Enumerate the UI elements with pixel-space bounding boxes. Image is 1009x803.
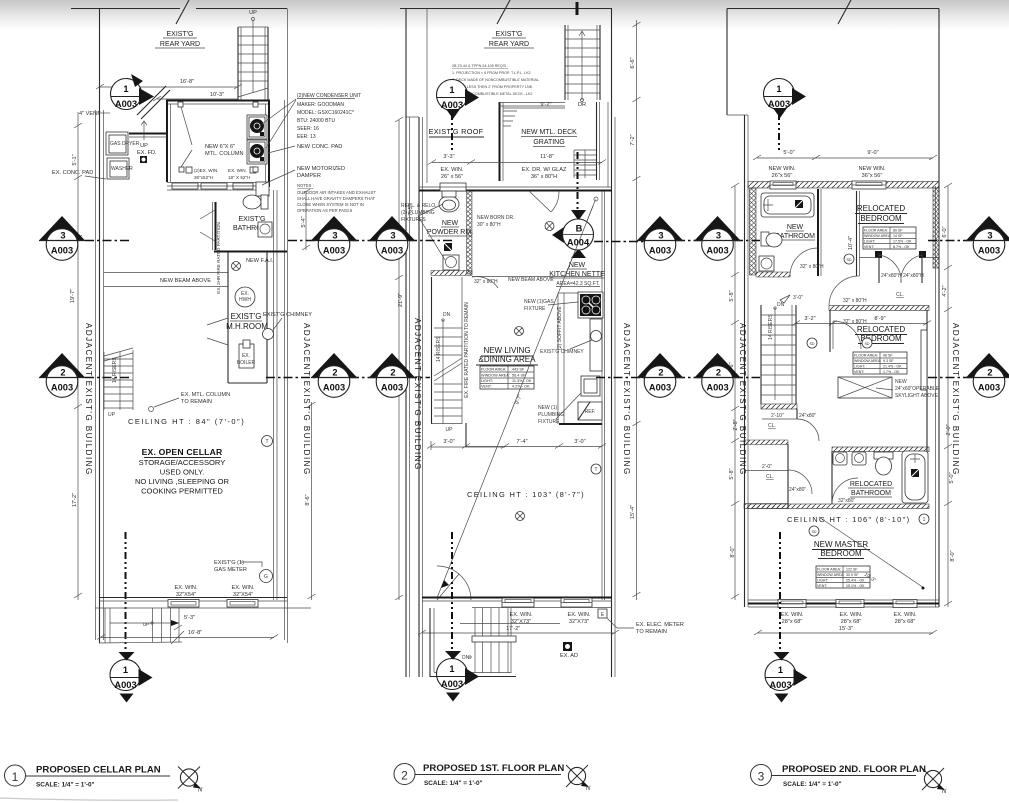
marker 3/A003 far right	[966, 216, 1009, 260]
rear lot line (right)	[727, 8, 939, 10]
area table (mid)	[480, 366, 534, 389]
east dim line	[636, 20, 638, 600]
svg-text:3: 3	[716, 231, 721, 241]
svg-text:BEDROOM: BEDROOM	[820, 549, 862, 558]
marker B/A004	[552, 210, 594, 258]
dim row 3'-3" 11'-8"	[432, 162, 602, 164]
svg-text:21.4% - OK: 21.4% - OK	[883, 365, 902, 369]
svg-text:NEW: NEW	[442, 220, 459, 227]
section row 2 dashdot segments	[85, 377, 973, 379]
svg-text:28"x 68": 28"x 68"	[841, 619, 862, 625]
marker 1/A003 bottom-mid plan	[437, 651, 480, 702]
svg-text:8.7% - OK: 8.7% - OK	[893, 245, 910, 249]
svg-text:2'-10": 2'-10"	[771, 413, 784, 419]
dim 16'-8" top	[100, 86, 238, 88]
svg-text:CEILING HT : 103" (8'-7"): CEILING HT : 103" (8'-7")	[467, 490, 585, 499]
svg-text:CEILING HT : 84" (7'-0"): CEILING HT : 84" (7'-0")	[128, 417, 245, 426]
svg-text:EXIST'G: EXIST'G	[231, 312, 262, 321]
interior walls mid section	[829, 310, 831, 352]
svg-text:8'-9": 8'-9"	[874, 316, 885, 322]
svg-text:5'-4": 5'-4"	[301, 216, 307, 227]
west dim ticks 5'-1"	[74, 123, 82, 180]
svg-text:A003: A003	[114, 680, 136, 690]
svg-text:BATHROOM: BATHROOM	[851, 490, 891, 497]
svg-text:2: 2	[60, 368, 65, 378]
svg-text:EX. WIN.: EX. WIN.	[781, 612, 804, 618]
west hatched wall segment	[750, 188, 757, 275]
title 2	[394, 764, 415, 785]
east wall lines	[284, 100, 286, 640]
mech room window labels	[186, 167, 192, 173]
svg-text:A003: A003	[323, 246, 345, 256]
centerline dash-dot	[125, 532, 127, 655]
svg-text:NEW LIVING: NEW LIVING	[483, 346, 530, 355]
svg-text:WINDOW AREA:: WINDOW AREA:	[864, 234, 891, 238]
marker 3/A003 left	[39, 216, 85, 260]
svg-text:17.5% - OK: 17.5% - OK	[893, 240, 912, 244]
svg-text:A003: A003	[706, 246, 728, 256]
svg-text:3: 3	[658, 231, 663, 241]
sink	[581, 376, 600, 396]
svg-text:7'-4": 7'-4"	[516, 439, 527, 445]
svg-text:OUTDOOR AIR INTAKES AND EXHAUS: OUTDOOR AIR INTAKES AND EXHAUST	[297, 190, 376, 195]
svg-text:2. DECK MADE OF NONCOMBUSTIBLE: 2. DECK MADE OF NONCOMBUSTIBLE MATERIAL	[452, 78, 539, 82]
svg-text:DN: DN	[462, 655, 470, 661]
front door (mid)	[437, 566, 471, 600]
svg-text:1: 1	[449, 664, 454, 674]
svg-text:FLOOR AREA:: FLOOR AREA:	[854, 354, 878, 358]
svg-text:26"x 56": 26"x 56"	[772, 173, 793, 179]
relocated bedroom top	[855, 204, 916, 249]
svg-text:EXIST'G: EXIST'G	[166, 31, 193, 38]
new bathroom	[756, 189, 824, 277]
svg-text:2'-0": 2'-0"	[762, 464, 772, 470]
svg-text:NEW MTL. DECK: NEW MTL. DECK	[521, 129, 577, 136]
svg-text:ADJACENT EXIST'G BUILDING: ADJACENT EXIST'G BUILDING	[302, 323, 311, 476]
svg-text:EX. MTL. COLUMN: EX. MTL. COLUMN	[181, 392, 230, 398]
svg-text:A003: A003	[649, 383, 671, 393]
svg-text:A003: A003	[706, 383, 728, 393]
svg-text:FLOOR AREA:: FLOOR AREA:	[817, 568, 841, 572]
svg-text:A003: A003	[978, 383, 1000, 393]
svg-text:EX. DR. W/ GLAZ: EX. DR. W/ GLAZ	[522, 167, 567, 173]
svg-text:FIXTURE: FIXTURE	[524, 306, 546, 312]
east wall lines	[601, 190, 603, 600]
svg-text:WINDOW AREA:: WINDOW AREA:	[481, 374, 510, 378]
svg-text:KITCHEN NETTE: KITCHEN NETTE	[549, 271, 605, 278]
svg-text:6'-0": 6'-0"	[942, 226, 948, 237]
stair bottom hatched walls + closets	[761, 404, 797, 409]
svg-text:SD: SD	[847, 258, 852, 262]
rear stair (mid)	[565, 25, 600, 102]
svg-text:REAR YARD: REAR YARD	[160, 41, 200, 48]
svg-text:USED ONLY.: USED ONLY.	[160, 468, 204, 477]
marker 1/A003 top-left plan	[111, 74, 155, 110]
svg-text:DR: DR	[578, 102, 586, 108]
dim 10'-3"	[157, 98, 238, 100]
svg-text:11.3% - OK: 11.3% - OK	[512, 379, 532, 383]
svg-text:2: 2	[987, 368, 992, 378]
window band bottom of mech room	[167, 182, 270, 184]
svg-text:3'-0": 3'-0"	[443, 439, 454, 445]
svg-text:WASHER: WASHER	[111, 166, 133, 172]
E meter	[598, 609, 607, 618]
svg-text:TO REMAIN: TO REMAIN	[636, 629, 667, 635]
svg-text:18" X 52"H: 18" X 52"H	[228, 175, 250, 180]
deck	[499, 102, 608, 187]
west dim line	[734, 186, 736, 600]
svg-text:A003: A003	[769, 680, 791, 690]
wall below REF + dim	[559, 423, 602, 425]
svg-text:8'-6": 8'-6"	[305, 494, 311, 505]
svg-text:6'-6": 6'-6"	[630, 57, 636, 68]
svg-text:36" x 80"H: 36" x 80"H	[531, 174, 557, 180]
svg-text:EXIST'G CHIMNEY: EXIST'G CHIMNEY	[263, 312, 312, 318]
svg-text:VENT:: VENT:	[864, 245, 874, 249]
stair (right plan)	[761, 295, 803, 404]
svg-text:1: 1	[449, 85, 454, 95]
svg-text:ADJACENT EXIST'G BUILDING: ADJACENT EXIST'G BUILDING	[413, 318, 422, 471]
svg-text:28"x 68": 28"x 68"	[895, 619, 916, 625]
svg-text:9'-0": 9'-0"	[867, 150, 878, 156]
svg-text:24"x80"H: 24"x80"H	[881, 273, 902, 279]
east lot line	[938, 9, 940, 608]
svg-text:16'-8": 16'-8"	[180, 79, 194, 85]
diagonal leader (master)	[819, 517, 924, 588]
svg-text:SCALE: 1/4" = 1'-0": SCALE: 1/4" = 1'-0"	[783, 781, 842, 788]
west lot/wall lines	[405, 9, 407, 678]
rear lot line	[400, 8, 612, 10]
svg-text:VENT:: VENT:	[854, 370, 864, 374]
marker 2/A003 mid-plan east	[637, 353, 683, 397]
west lot lines	[726, 9, 728, 116]
svg-text:9.3 SF: 9.3 SF	[883, 359, 894, 363]
svg-text:SCALE: 1/4" = 1'-0": SCALE: 1/4" = 1'-0"	[36, 782, 95, 789]
main north wall	[419, 190, 612, 192]
svg-text:7'-2": 7'-2"	[630, 134, 636, 145]
entry door from deck	[529, 191, 559, 212]
svg-text:GAS DRYER: GAS DRYER	[110, 141, 140, 147]
svg-text:POWDER RM.: POWDER RM.	[427, 229, 473, 236]
svg-text:5'-1": 5'-1"	[72, 154, 78, 165]
rear yard stair	[238, 10, 268, 100]
svg-text:1: 1	[123, 665, 128, 675]
svg-text:PROPOSED 2ND. FLOOR PLAN: PROPOSED 2ND. FLOOR PLAN	[782, 764, 926, 775]
svg-text:1.7% - OK: 1.7% - OK	[883, 370, 900, 374]
svg-text:EX. WIN.: EX. WIN.	[510, 612, 533, 618]
svg-text:LIGHT:: LIGHT:	[481, 379, 493, 383]
svg-text:32" x 80"H: 32" x 80"H	[843, 298, 867, 304]
svg-text:GAS METER: GAS METER	[214, 567, 247, 573]
east hatched wall	[933, 188, 939, 268]
svg-text:NEW BEAM ABOVE: NEW BEAM ABOVE	[160, 278, 211, 284]
svg-text:2: 2	[390, 368, 395, 378]
laundry top wall + UP arrow	[129, 133, 167, 135]
svg-text:EX. WIN.: EX. WIN.	[232, 585, 255, 591]
title 1	[5, 765, 26, 786]
svg-text:1. PROJECTION < 6 FROM PROP. T: 1. PROJECTION < 6 FROM PROP. T.L.P.L. LK…	[452, 71, 531, 75]
long diagonal leader	[437, 200, 596, 599]
M.H. room	[207, 252, 274, 383]
svg-text:5'-8": 5'-8"	[729, 290, 735, 301]
front lot line	[95, 607, 311, 609]
svg-text:30.9 SF: 30.9 SF	[846, 573, 859, 577]
relocated bedroom 2	[853, 325, 907, 374]
svg-text:10'-4": 10'-4"	[848, 236, 854, 250]
svg-text:36"x 56": 36"x 56"	[862, 173, 883, 179]
svg-text:30" x 80"H: 30" x 80"H	[477, 222, 501, 228]
svg-text:32"x80": 32"x80"	[838, 498, 855, 504]
svg-text:BEDROOM: BEDROOM	[860, 214, 902, 223]
svg-text:CL.: CL.	[766, 474, 774, 480]
svg-text:EX. WIN.: EX. WIN.	[441, 167, 464, 173]
svg-text:11'-8": 11'-8"	[540, 154, 554, 160]
east outer dim line	[311, 402, 313, 600]
svg-text:8'-0": 8'-0"	[730, 546, 736, 557]
marker 3/A003 mid-plan west	[369, 216, 415, 260]
svg-text:4" VENT: 4" VENT	[79, 111, 101, 117]
marker 3/A003 left-plan east	[311, 216, 357, 260]
svg-text:ADJACENT EXIST'G BUILDING: ADJACENT EXIST'G BUILDING	[951, 323, 960, 476]
full width hatched wall	[748, 504, 929, 509]
svg-text:NEW 6"X 6": NEW 6"X 6"	[205, 144, 235, 150]
svg-text:NEW: NEW	[895, 379, 907, 385]
skylight	[838, 377, 940, 399]
svg-text:NEW BEAM ABOVE: NEW BEAM ABOVE	[508, 277, 554, 283]
svg-text:HWH: HWH	[239, 297, 251, 303]
svg-text:OPERATION AS PER PA03.6: OPERATION AS PER PA03.6	[297, 208, 353, 213]
svg-text:SCALE: 1/4" = 1'-0": SCALE: 1/4" = 1'-0"	[424, 780, 483, 787]
svg-text:24"x80"H: 24"x80"H	[903, 273, 924, 279]
svg-text:GRATING: GRATING	[533, 139, 564, 146]
svg-text:14 SF: 14 SF	[893, 234, 903, 238]
svg-text:LIGHT:: LIGHT:	[817, 579, 828, 583]
svg-text:NEW: NEW	[569, 262, 586, 269]
stair foot (mid)	[431, 423, 462, 425]
svg-text:NEW MOTORIZED: NEW MOTORIZED	[297, 166, 345, 172]
svg-text:WINDOW AREA:: WINDOW AREA:	[817, 573, 844, 577]
condenser units	[247, 115, 267, 164]
svg-text:1: 1	[776, 84, 781, 94]
svg-text:(2) PLUMBING: (2) PLUMBING	[401, 210, 435, 216]
svg-text:26" x 56": 26" x 56"	[441, 174, 463, 180]
svg-text:LIGHT:: LIGHT:	[864, 240, 875, 244]
svg-text:EX. WIN.: EX. WIN.	[175, 585, 198, 591]
svg-text:EX. WIN.: EX. WIN.	[894, 612, 917, 618]
svg-text:UP: UP	[446, 427, 454, 433]
title 3	[751, 765, 772, 786]
svg-text:1: 1	[923, 517, 926, 523]
svg-text:3: 3	[332, 231, 337, 241]
svg-text:3'-0": 3'-0"	[793, 295, 803, 301]
marker 2/A003 right-plan west	[695, 353, 741, 397]
svg-text:RELOCATED: RELOCATED	[850, 481, 892, 488]
svg-text:LIGHT:: LIGHT:	[854, 365, 865, 369]
svg-text:14 RISERS: 14 RISERS	[768, 314, 774, 340]
closet 2	[744, 440, 788, 445]
svg-text:EXIST'G: EXIST'G	[495, 31, 522, 38]
svg-text:24"x60"OPERABLE: 24"x60"OPERABLE	[895, 386, 940, 392]
svg-text:ADJACENT EXIST'G BUILDING: ADJACENT EXIST'G BUILDING	[84, 323, 93, 476]
svg-text:A003: A003	[51, 246, 73, 256]
section cut slash at marker 1	[137, 86, 170, 119]
section row 3 dashdot segments	[85, 241, 973, 242]
closet bottom wall hatched	[829, 306, 929, 311]
kitchen counter and stove	[557, 293, 559, 424]
svg-text:T: T	[265, 439, 268, 445]
REF	[578, 402, 602, 420]
svg-text:2: 2	[716, 368, 721, 378]
dim row 3'-2" 8'-9"	[796, 323, 927, 325]
south wall (mid)	[422, 597, 612, 599]
svg-text:EX. FD.: EX. FD.	[137, 150, 157, 156]
svg-text:A003: A003	[115, 99, 137, 109]
svg-text:15'-3": 15'-3"	[839, 626, 853, 632]
top dim 5'-0" 9'-0"	[757, 157, 933, 159]
svg-text:A003: A003	[768, 99, 790, 109]
svg-text:EX. WIN.: EX. WIN.	[228, 168, 247, 173]
svg-text:(2) SOFFIT ABOVE: (2) SOFFIT ABOVE	[557, 306, 563, 350]
svg-text:COOKING PERMITTED: COOKING PERMITTED	[141, 487, 223, 496]
svg-text:3: 3	[390, 231, 395, 241]
svg-text:EX. FIRE RATED PARTITION TO RE: EX. FIRE RATED PARTITION TO REMAIN	[464, 302, 470, 398]
svg-text:NEW (1): NEW (1)	[538, 405, 558, 411]
svg-text:EX. ELEC. METER: EX. ELEC. METER	[636, 622, 684, 628]
svg-text:5'-8": 5'-8"	[729, 468, 735, 479]
svg-text:FIXTURE: FIXTURE	[538, 419, 560, 425]
front wall (right)	[748, 603, 939, 605]
svg-text:17'-2": 17'-2"	[72, 493, 78, 507]
svg-text:EXIST'G (1): EXIST'G (1)	[214, 560, 244, 566]
marker 2/A003 far right	[966, 353, 1009, 397]
svg-text:NOTES :: NOTES :	[297, 183, 314, 188]
west lot/wall lines	[99, 9, 101, 644]
EX AD	[563, 642, 572, 651]
svg-text:5'-0": 5'-0"	[783, 150, 794, 156]
svg-text:2: 2	[332, 368, 337, 378]
svg-text:EX. AD: EX. AD	[560, 653, 578, 659]
svg-text:UP: UP	[108, 412, 116, 418]
svg-text:MODEL: GSXC160241C*: MODEL: GSXC160241C*	[297, 110, 354, 116]
new motorized damper label	[262, 170, 295, 185]
entry stoop	[99, 608, 184, 644]
svg-text:WINDOW AREA:: WINDOW AREA:	[854, 359, 881, 363]
svg-text:A003: A003	[441, 100, 463, 110]
svg-text:3'-3": 3'-3"	[443, 154, 454, 160]
svg-text:UP: UP	[249, 10, 257, 16]
marker 3/A003 mid-plan east	[637, 216, 683, 260]
svg-text:PROPOSED CELLAR PLAN: PROPOSED CELLAR PLAN	[36, 765, 161, 776]
svg-text:SKYLIGHT ABOVE: SKYLIGHT ABOVE	[895, 393, 939, 399]
marker 1/A003 top-right plan	[764, 79, 807, 119]
west dim line	[398, 120, 400, 600]
svg-text:21'-9": 21'-9"	[398, 293, 404, 307]
svg-text:14 RISERS: 14 RISERS	[112, 357, 118, 383]
bathroom (cellar)	[200, 195, 287, 252]
svg-text:MTL. COLUMN: MTL. COLUMN	[205, 151, 244, 157]
svg-text:3: 3	[758, 770, 765, 784]
powder room	[427, 191, 473, 276]
svg-text:14 RISERS: 14 RISERS	[436, 336, 442, 362]
centerline to bottom marker	[125, 655, 127, 659]
new conc pad label	[268, 146, 295, 153]
marker 1/A003 bottom-right plan	[765, 652, 808, 703]
svg-text:SEER: 16: SEER: 16	[297, 126, 319, 132]
svg-text:NEW F.A.I.: NEW F.A.I.	[246, 258, 274, 264]
svg-text:3'-0": 3'-0"	[574, 439, 585, 445]
scanned-paper top gradient	[0, 0, 1009, 30]
svg-text:2B 23-44 & TPPN 04-105 REQ'D :: 2B 23-44 & TPPN 04-105 REQ'D :	[452, 64, 508, 68]
svg-text:NEW CONC. PAD: NEW CONC. PAD	[297, 144, 342, 150]
svg-text:RELOCATED: RELOCATED	[857, 204, 906, 213]
svg-text:32"X73": 32"X73"	[511, 619, 531, 625]
svg-text:CL.: CL.	[768, 423, 776, 429]
marker 3/A003 right-plan west	[695, 216, 741, 260]
relocated bathroom	[832, 447, 929, 504]
svg-text:EX. WIN.: EX. WIN.	[840, 612, 863, 618]
svg-text:NEW WIN.: NEW WIN.	[768, 166, 795, 172]
svg-text:1: 1	[12, 770, 19, 784]
svg-text:FIXTURES: FIXTURES	[401, 217, 426, 223]
entry stoop (mid)	[430, 608, 560, 677]
marker 2/A003 left	[39, 353, 85, 397]
svg-text:9'-7": 9'-7"	[514, 394, 523, 406]
mtl columns	[178, 102, 183, 107]
closet top with double doors	[859, 251, 939, 298]
lot line break slash	[176, 0, 189, 24]
svg-text:10'-3": 10'-3"	[210, 92, 224, 98]
svg-text:NEW (1)GAS: NEW (1)GAS	[524, 299, 554, 305]
wall + dim under stair2	[465, 423, 467, 447]
svg-text:5'-3": 5'-3"	[184, 615, 195, 621]
svg-text:19'-7": 19'-7"	[70, 289, 76, 303]
svg-text:REPL. & RELO.: REPL. & RELO.	[401, 203, 437, 209]
svg-text:80 SF: 80 SF	[893, 229, 903, 233]
marker 1/A003 top-mid plan	[437, 80, 480, 120]
svg-text:EX. WIN.: EX. WIN.	[568, 612, 591, 618]
svg-text:36"x52"H: 36"x52"H	[194, 175, 213, 180]
svg-text:96 SF: 96 SF	[883, 354, 893, 358]
svg-text:DN: DN	[443, 312, 451, 318]
svg-text:EX.: EX.	[242, 353, 250, 359]
svg-text:SD: SD	[810, 342, 815, 346]
svg-text:DAMPER: DAMPER	[297, 173, 321, 179]
svg-text:A003: A003	[978, 246, 1000, 256]
svg-text:SD: SD	[812, 530, 817, 534]
west stair (mid)	[432, 277, 463, 424]
svg-text:FLOOR AREA:: FLOOR AREA:	[864, 229, 888, 233]
svg-text:G: G	[264, 574, 268, 580]
svg-text:3'-2": 3'-2"	[804, 316, 815, 322]
svg-text:28"x 68": 28"x 68"	[782, 619, 803, 625]
svg-text:A003: A003	[51, 383, 73, 393]
condenser leaders	[262, 99, 296, 148]
svg-text:1: 1	[778, 665, 783, 675]
svg-text:1: 1	[123, 84, 128, 94]
svg-text:SHALL HAVE GRAVITY DAMPERS THA: SHALL HAVE GRAVITY DAMPERS THAT	[297, 196, 376, 201]
svg-text:(2)EX. WIN.: (2)EX. WIN.	[194, 168, 219, 173]
gas dryer	[106, 132, 128, 155]
svg-text:16'-8": 16'-8"	[188, 630, 202, 636]
svg-text:VENT:: VENT:	[817, 584, 827, 588]
south wall with windows	[100, 597, 287, 599]
svg-text:25.4% - OK: 25.4% - OK	[846, 579, 865, 583]
svg-text:MAKER: GOODMAN: MAKER: GOODMAN	[297, 102, 344, 108]
svg-text:ADJACENT EXIST'G BUILDING: ADJACENT EXIST'G BUILDING	[738, 323, 747, 476]
svg-text:STORAGE/ACCESSORY: STORAGE/ACCESSORY	[139, 458, 226, 467]
svg-text:A003: A003	[381, 246, 403, 256]
svg-text:EX. CONC. PAD: EX. CONC. PAD	[52, 170, 93, 176]
